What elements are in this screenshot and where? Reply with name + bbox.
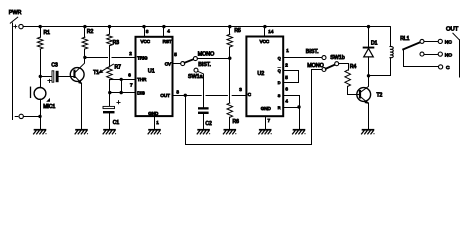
ground under U2 pin4 (293, 129, 306, 134)
svg-text:C1: C1 (113, 120, 120, 126)
resistor R6 (227, 103, 233, 117)
wire U2 pin7 GND (265, 116, 267, 129)
wire top +V rail (23, 26, 390, 28)
wire T1 emitter with arrow (76, 77, 82, 83)
switch SW1b MONO contact (322, 68, 326, 72)
wire R4 to T2 base (348, 86, 359, 94)
svg-text:OUT: OUT (160, 93, 170, 98)
junction rail R5 (228, 25, 231, 28)
wire + terminal to rail (23, 26, 40, 28)
wire U2 pin1 Q to SW1b BIST (284, 57, 322, 59)
junction rail U1 pin8 (142, 25, 145, 28)
resistor R2 (84, 27, 86, 38)
op-amp U1 555 timer box (136, 37, 173, 116)
svg-text:1: 1 (286, 48, 289, 53)
wire U1 pin5 CV to SW1a pole (173, 63, 181, 65)
wire C3 to T1 base (59, 76, 74, 78)
relay coil RL1 (390, 27, 392, 47)
terminal NC (438, 39, 442, 43)
ground under U2 (259, 129, 272, 134)
svg-text:GND: GND (148, 111, 159, 116)
junction rail R1 (39, 25, 42, 28)
relay RL1 lever (403, 42, 420, 49)
wire T2 emitter with arrow (361, 97, 368, 103)
svg-text:5: 5 (285, 75, 288, 80)
wire SW1a BIST to C2 (198, 71, 204, 107)
terminal C (439, 65, 443, 69)
wire U1 pin8 VCC (144, 27, 146, 37)
terminal PWR - pin (15, 116, 18, 118)
ground under MIC1 (34, 129, 47, 134)
svg-text:3: 3 (176, 90, 179, 95)
wire TRIG to U1 pin2 (break at R3 crossing) (85, 57, 108, 59)
svg-text:2: 2 (129, 51, 132, 56)
wire R7 to U1 pin6 THR (110, 79, 136, 81)
svg-text:CV: CV (165, 61, 171, 66)
svg-text:7: 7 (268, 118, 271, 123)
svg-text:6: 6 (128, 73, 131, 78)
junction minus/mic node (38, 115, 41, 118)
switch SW1a pole contact (181, 62, 185, 66)
svg-text:PWR: PWR (9, 10, 22, 16)
wire C2 to ground (203, 114, 205, 129)
trimmer R7 (107, 67, 113, 80)
svg-text:SW1b: SW1b (330, 55, 345, 61)
junction THR tie top (120, 78, 123, 81)
svg-text:4: 4 (285, 98, 288, 103)
junction rail R2 (83, 25, 86, 28)
wire relay common to C terminal (404, 49, 439, 66)
wire DIS node down to C1 (109, 93, 111, 107)
svg-text:RST: RST (163, 39, 172, 44)
wire node to C3 (40, 76, 52, 78)
svg-text:D: D (278, 81, 281, 85)
svg-text:BIST.: BIST. (306, 49, 319, 55)
wire MIC1 to ground (40, 99, 42, 129)
ground under C2 (197, 129, 210, 134)
junction rail U2 pin14 (263, 25, 266, 28)
junction rail D1 (367, 25, 370, 28)
svg-text:RL1: RL1 (400, 36, 409, 42)
wire T2 emitter to ground (368, 103, 370, 129)
svg-text:OUT: OUT (446, 27, 459, 33)
svg-text:R2: R2 (87, 29, 94, 35)
wire T2 collector to D1/relay node (361, 76, 368, 92)
junction S/R tie (297, 105, 300, 108)
switch SW1b BIST contact (322, 56, 326, 60)
svg-text:Q: Q (278, 56, 281, 60)
ground under T1 (75, 129, 88, 134)
svg-text:NC: NC (445, 40, 453, 46)
svg-text:C2: C2 (205, 121, 212, 127)
resistor R5 (229, 27, 231, 35)
svg-text:3: 3 (239, 87, 242, 92)
wire R5 junction down to R6 (229, 58, 231, 103)
svg-text:TRIG: TRIG (137, 55, 148, 60)
wire NC contact to terminal (424, 41, 439, 43)
wire U1 pin3 OUT (breaks at C2 and R6 crossings) (173, 95, 202, 97)
svg-text:VCC: VCC (260, 39, 270, 44)
wire U2 pin14 VCC (264, 27, 266, 37)
transistor T1 (70, 68, 84, 82)
svg-text:8: 8 (146, 29, 149, 34)
svg-text:U2: U2 (257, 71, 264, 77)
svg-text:THR: THR (137, 77, 147, 82)
op-amp U2 4013 flip-flop box (246, 37, 283, 117)
switch SW1b pole contact (335, 62, 339, 66)
svg-text:D1: D1 (371, 41, 378, 47)
svg-text:S: S (278, 94, 281, 98)
connector PWR bracket (12, 23, 14, 120)
wire - terminal to MIC1 bottom (23, 116, 40, 118)
terminal NO (438, 52, 442, 56)
wire OUT feedback bus to SW1b MONO (186, 70, 323, 145)
svg-text:SW1a: SW1a (188, 74, 203, 80)
svg-text:Q: Q (278, 69, 281, 73)
svg-text:R7: R7 (115, 65, 122, 71)
svg-text:R: R (278, 106, 281, 110)
wire THR-DIS tie vertical (121, 79, 123, 92)
junction THR tie bottom (120, 91, 123, 94)
switch SW1a MONO contact (193, 57, 197, 61)
wire U1 pin1 GND (154, 116, 156, 129)
wire U2 pin4 R to ground (284, 107, 299, 109)
transistor T2 (357, 88, 371, 102)
wire U1 pin4 RST (163, 27, 165, 37)
wire NO contact to terminal (424, 54, 439, 56)
svg-text:VCC: VCC (141, 39, 151, 44)
junction D1 anode / collector / coil (367, 74, 370, 77)
svg-text:14: 14 (268, 29, 274, 34)
wire SW1a MONO to R5/R6 junction (197, 58, 229, 60)
junction rail U1 pin4 (162, 25, 165, 28)
switch SW1a lever (185, 59, 194, 63)
terminal PWR + pin (14, 26, 17, 28)
switch SW1b lever (326, 65, 335, 69)
svg-text:C3: C3 (51, 63, 58, 69)
junction OUT node (184, 94, 187, 97)
wire coil bottom to junction (369, 58, 391, 76)
wire U2 pin2 Qbar to pin5 D loop (284, 71, 298, 83)
svg-text:R6: R6 (233, 119, 240, 125)
junction DIS node (108, 91, 111, 94)
relay NO contact (420, 52, 424, 56)
svg-text:7: 7 (130, 82, 133, 87)
svg-text:4: 4 (167, 29, 170, 34)
svg-text:5: 5 (174, 52, 177, 57)
svg-text:2: 2 (285, 62, 288, 67)
svg-text:GND: GND (261, 106, 272, 111)
wire U2 pin6 S to ground tie (284, 96, 299, 108)
resistor R1 (40, 27, 42, 38)
diode D1 (368, 27, 370, 47)
svg-text:NO: NO (445, 52, 453, 58)
junction rail R3 (108, 25, 111, 28)
wire T1 collector to R2 (76, 57, 85, 72)
svg-text:R4: R4 (350, 64, 357, 70)
junction R2 collector TRIG (83, 56, 86, 59)
ground under U1 (148, 129, 161, 134)
capacitor C1 (117, 102, 120, 104)
svg-text:R3: R3 (113, 40, 120, 46)
wire R6 to ground (229, 117, 231, 129)
ground under C1 (103, 129, 116, 134)
junction node to C3 (39, 75, 42, 78)
wire R1 to MIC1 (40, 49, 42, 88)
resistor R3 (109, 27, 111, 34)
svg-text:BIST.: BIST. (198, 62, 211, 68)
svg-text:T2: T2 (377, 92, 383, 98)
svg-text:6: 6 (285, 87, 288, 92)
ground under T2 (362, 129, 375, 134)
wire DIS node to U1 pin7 (110, 92, 136, 94)
microphone MIC1 (34, 88, 46, 100)
switch SW1a BIST contact (194, 68, 198, 72)
svg-text:R5: R5 (234, 28, 241, 34)
wire R3 to R7 (109, 46, 111, 67)
wire C1 to ground (109, 113, 111, 128)
svg-text:C: C (248, 92, 252, 97)
wire T1 emitter to ground (81, 83, 83, 129)
ground under R6 (223, 129, 236, 134)
svg-text:MONO: MONO (198, 51, 215, 57)
svg-text:MONO: MONO (307, 63, 324, 69)
svg-text:1: 1 (156, 120, 159, 125)
resistor R4 (345, 70, 351, 86)
svg-text:MIC1: MIC1 (43, 104, 55, 110)
wire SW1b pole to R4 (339, 64, 349, 71)
junction R5 R6 MONO (228, 57, 231, 60)
svg-text:C: C (446, 65, 450, 71)
svg-text:DIS: DIS (137, 90, 145, 95)
wire R7 to DIS node (109, 80, 111, 93)
svg-text:R1: R1 (44, 30, 51, 36)
svg-text:U1: U1 (148, 69, 155, 75)
relay NC contact (420, 39, 424, 43)
capacitor C2 (198, 107, 209, 109)
connector OUT bracket (453, 33, 459, 40)
